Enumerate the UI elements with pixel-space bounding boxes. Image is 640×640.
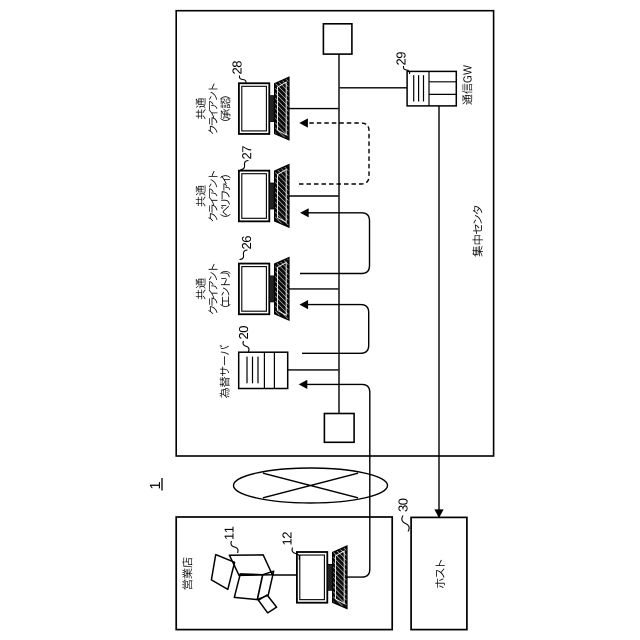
- box: branch office (eigyoten): [176, 517, 392, 630]
- ref 29: [396, 52, 409, 74]
- network X line 2: [263, 473, 358, 498]
- label: eigyoten: [182, 558, 192, 590]
- wire: laptop28 to bus: [289, 108, 338, 110]
- ref 30: [398, 499, 409, 532]
- laptop client 26 (entry): [239, 258, 289, 321]
- wire: laptop12 to server20 via network: [299, 380, 370, 577]
- bus terminator square left: [324, 414, 354, 443]
- ref 20: [239, 326, 249, 352]
- wire: laptop27 to bus: [289, 195, 338, 197]
- box: central center (shuchu center): [176, 11, 493, 456]
- wire: gateway29 to bus: [340, 87, 407, 89]
- label: kyotsu client (entry): [196, 264, 231, 315]
- ref 12: [282, 532, 299, 559]
- box: host 30: [411, 517, 467, 629]
- desktop computer 11: [211, 555, 276, 613]
- bus terminator square right: [323, 24, 352, 54]
- gateway 29 (tsushin GW) box: [407, 71, 456, 106]
- ref 26: [240, 236, 252, 259]
- wire: desktop11 to laptop12: [274, 574, 297, 576]
- gateway 29 columns: [429, 82, 456, 95]
- laptop client 28 (approve): [239, 77, 289, 140]
- label: kawase server: [220, 345, 230, 398]
- laptop client 27 (verify): [239, 165, 289, 228]
- ref 11: [225, 527, 238, 553]
- label: kyotsu client (approve): [196, 83, 231, 134]
- label: host: [435, 560, 445, 588]
- gateway 29 vents: [414, 75, 424, 101]
- wire: laptop26 to bus: [289, 288, 338, 290]
- server 20 dividers: [264, 352, 274, 388]
- gateway 29 divider: [428, 71, 430, 106]
- label: tsushin GW: [462, 65, 472, 105]
- wire hook: laptop26 to laptop27: [300, 208, 370, 273]
- ref 27: [241, 146, 252, 169]
- label: kyotsu client (verify): [196, 171, 231, 222]
- network X line 1: [263, 473, 358, 498]
- label: shuchu-center: [472, 206, 483, 257]
- server 20 (kawase server) box: [239, 352, 288, 388]
- wire hook dashed: laptop27 to laptop28: [299, 118, 369, 184]
- wire: server20 to bus: [288, 369, 339, 371]
- bus line: [338, 54, 340, 413]
- laptop client 12: [297, 546, 347, 609]
- figure number 1: [150, 478, 162, 491]
- wire hook: server20 to laptop26: [300, 300, 369, 353]
- wire: gateway29 to host30: [434, 106, 443, 518]
- ref 28: [232, 61, 246, 83]
- network ellipse: [234, 468, 388, 503]
- server 20 vents: [247, 357, 258, 384]
